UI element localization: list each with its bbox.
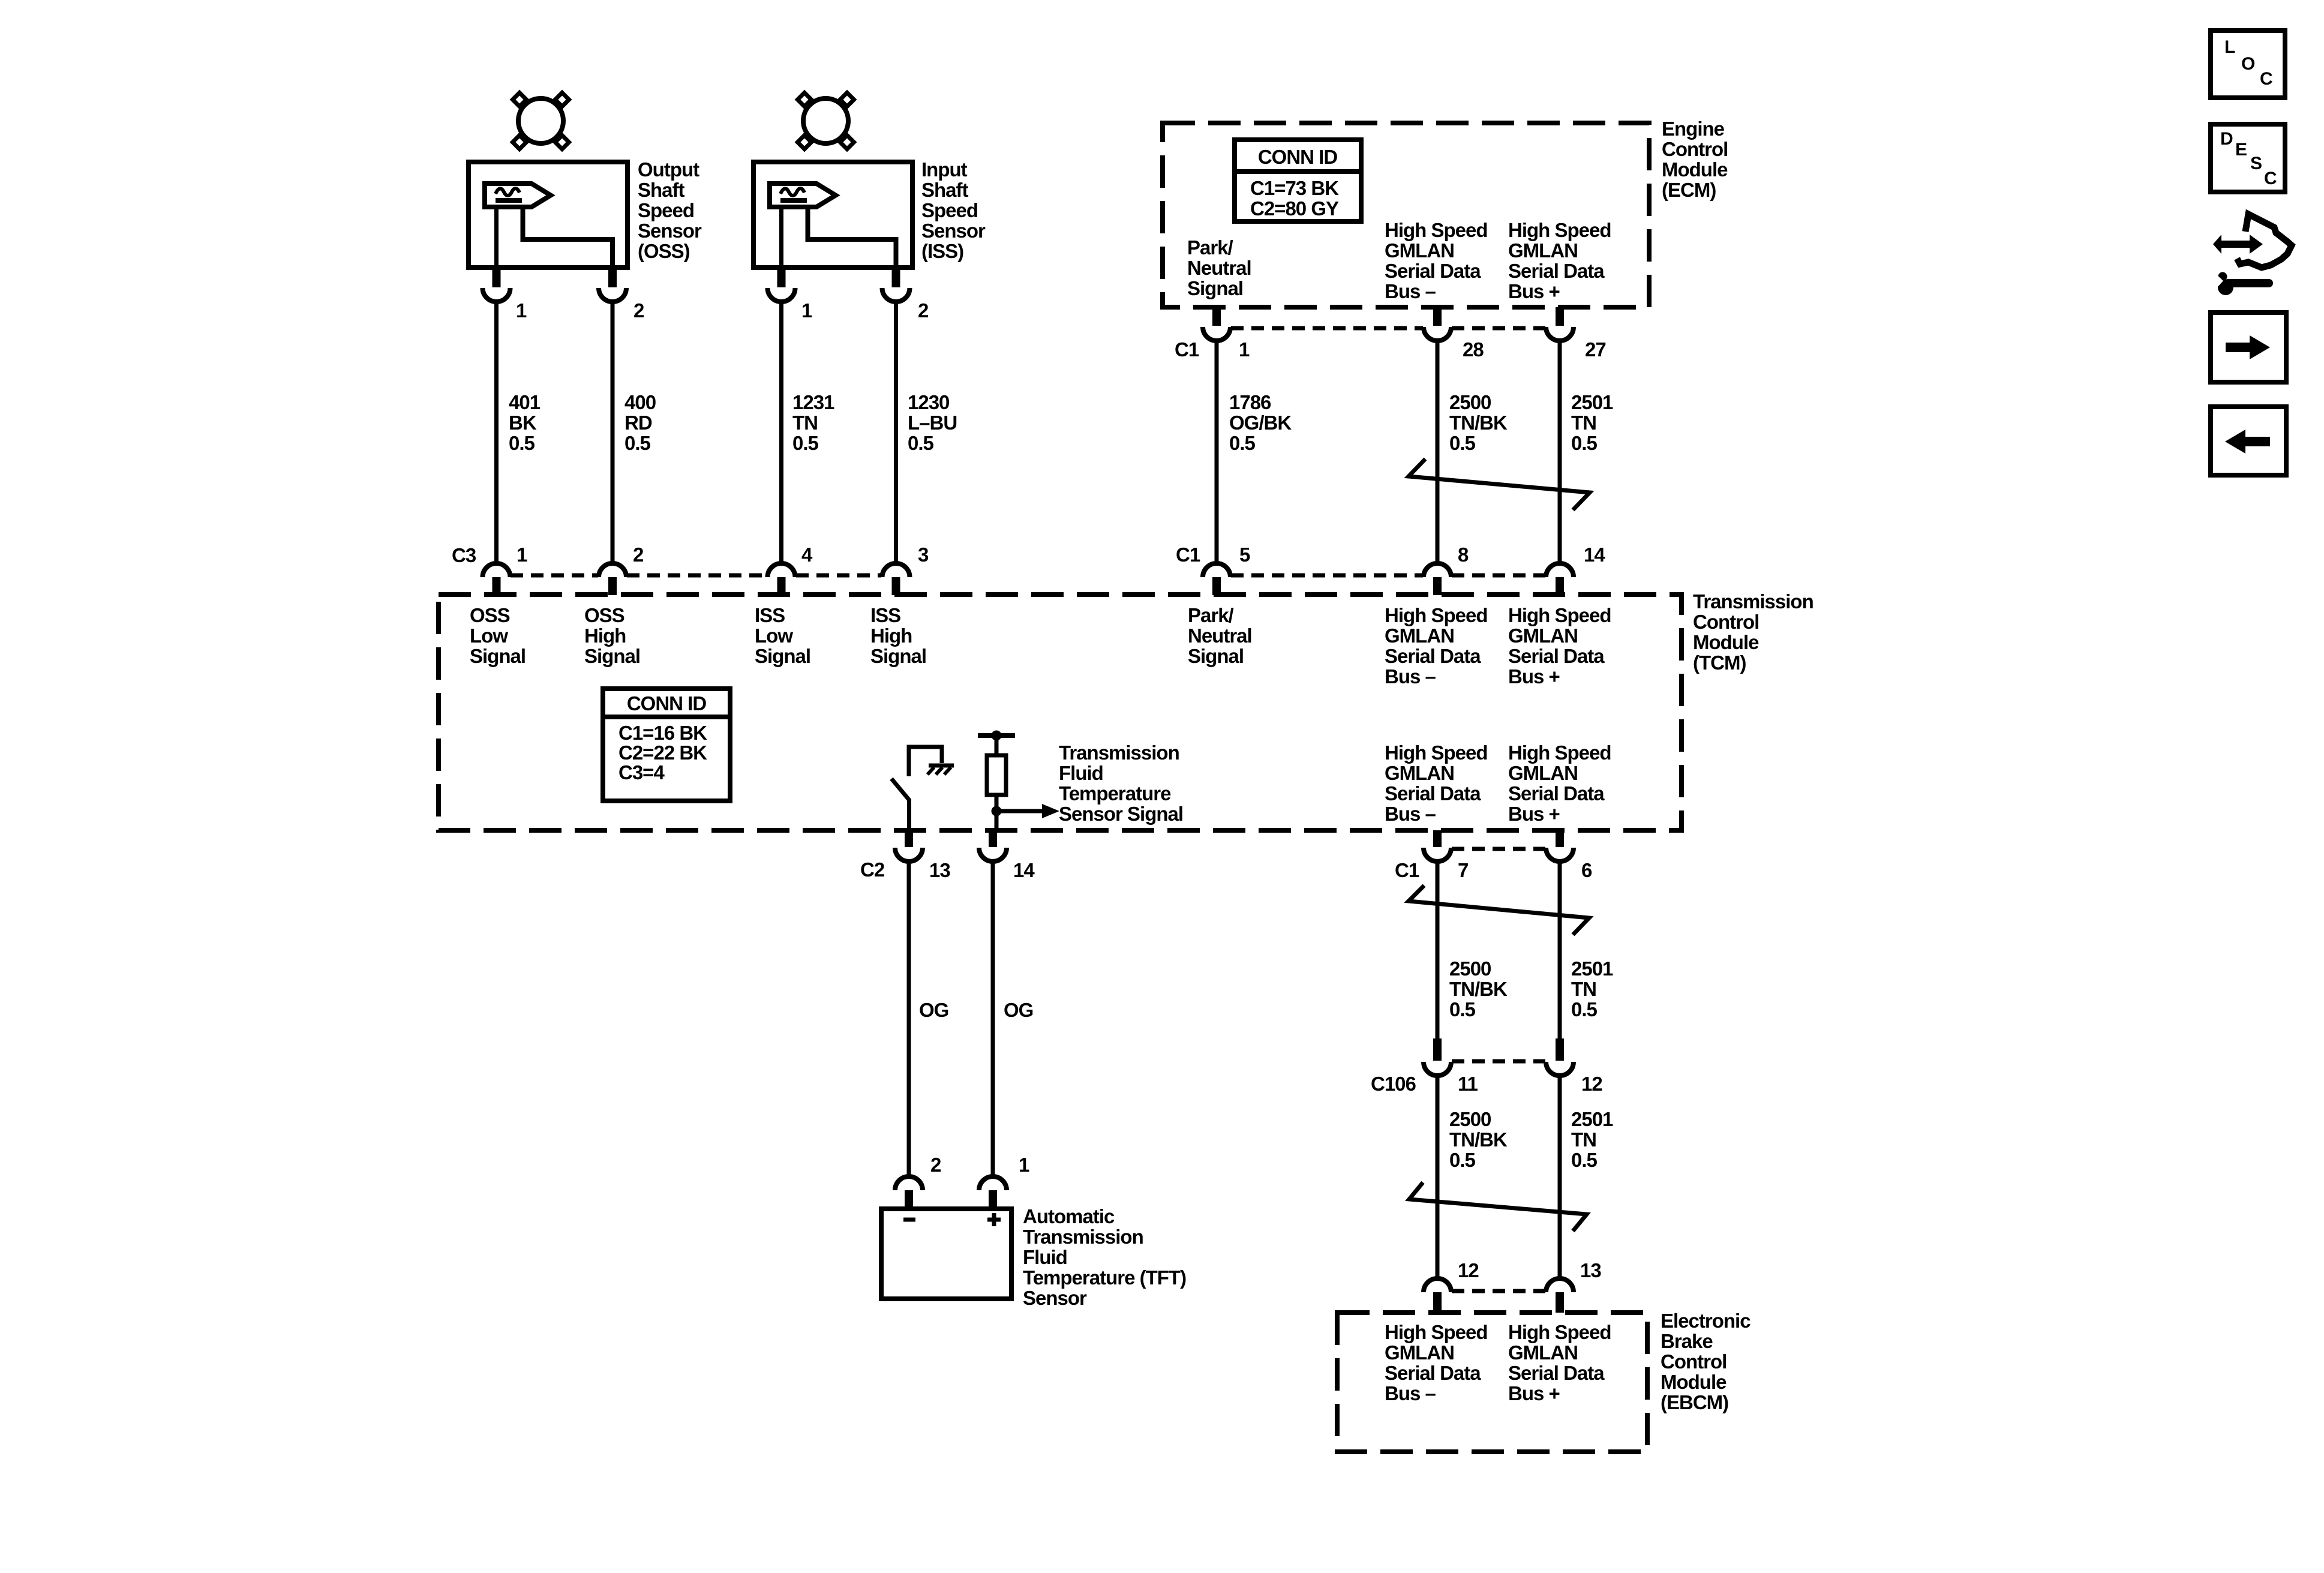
svg-text:Bus –: Bus –	[1385, 665, 1436, 688]
TCM OSS Low Signal label	[470, 604, 526, 667]
svg-text:C1: C1	[1175, 338, 1199, 361]
OSS internal lead pin2	[523, 207, 613, 268]
TFT sensor label	[1023, 1205, 1186, 1309]
svg-text:GMLAN: GMLAN	[1508, 625, 1578, 647]
TCM High Speed GMLAN Bus + label (top)	[1508, 604, 1611, 688]
svg-text:OG: OG	[919, 999, 948, 1021]
svg-text:C: C	[2260, 69, 2272, 89]
svg-text:Input: Input	[921, 158, 968, 181]
svg-text:Shaft: Shaft	[921, 179, 969, 201]
svg-text:Bus –: Bus –	[1385, 1382, 1436, 1404]
wire 2500 TN/BK (ECM-TCM)	[1436, 340, 1440, 564]
svg-text:Speed: Speed	[921, 199, 978, 221]
wire label 2501 TN 0.5 (mid)	[1571, 957, 1613, 1020]
svg-text:High: High	[870, 625, 912, 647]
ECM CONN ID table	[1235, 140, 1361, 221]
svg-text:Automatic: Automatic	[1023, 1205, 1115, 1227]
TCM pin 4 (C3) terminal	[768, 563, 795, 595]
svg-text:28: 28	[1463, 338, 1484, 361]
svg-text:2501: 2501	[1571, 957, 1613, 980]
svg-text:0.5: 0.5	[1229, 432, 1256, 454]
svg-text:0.5: 0.5	[1571, 1149, 1598, 1171]
svg-text:(ECM): (ECM)	[1662, 179, 1716, 201]
junction node (rail)	[992, 731, 1002, 741]
OSS gear/reluctor icon	[518, 98, 563, 143]
wire 401 BK	[494, 301, 499, 564]
svg-text:High Speed: High Speed	[1385, 219, 1488, 241]
svg-text:Bus +: Bus +	[1508, 803, 1560, 825]
svg-text:OG/BK: OG/BK	[1229, 412, 1292, 434]
svg-text:12: 12	[1458, 1259, 1479, 1281]
svg-text:OSS: OSS	[584, 604, 624, 626]
svg-text:High Speed: High Speed	[1508, 742, 1611, 764]
EBCM pin 13 terminal	[1546, 1278, 1574, 1313]
svg-text:TN: TN	[1571, 1128, 1596, 1151]
svg-text:Electronic: Electronic	[1661, 1310, 1750, 1332]
wire 2500 TN/BK (TCM-C106)	[1436, 860, 1440, 1040]
wire 1230 L-BU	[894, 301, 898, 564]
svg-text:E: E	[2235, 140, 2247, 160]
ISS label	[921, 158, 986, 262]
signal arrow	[996, 809, 1042, 813]
TCM label	[1693, 590, 1813, 674]
Transmission Fluid Temperature Sensor Signal label	[1059, 742, 1183, 825]
svg-text:C1=73 BK: C1=73 BK	[1250, 177, 1339, 199]
svg-text:0.5: 0.5	[1449, 432, 1476, 454]
wire label 1786 OG/BK 0.5	[1229, 391, 1292, 454]
svg-text:C2=22 BK: C2=22 BK	[618, 742, 707, 764]
ECM High Speed GMLAN Serial Data Bus - label	[1385, 219, 1488, 302]
svg-text:Sensor: Sensor	[638, 220, 702, 242]
svg-text:12: 12	[1581, 1073, 1602, 1095]
wire label 400 RD 0.5	[624, 391, 656, 454]
Electronic Brake Control Module (EBCM) dashed box	[1337, 1313, 1647, 1452]
svg-text:Serial Data: Serial Data	[1508, 645, 1605, 667]
svg-text:401: 401	[509, 391, 541, 413]
svg-text:Bus +: Bus +	[1508, 1382, 1560, 1404]
svg-text:4: 4	[801, 544, 813, 566]
svg-text:Signal: Signal	[470, 645, 526, 667]
svg-text:TN: TN	[1571, 412, 1596, 434]
svg-text:Park/: Park/	[1188, 604, 1234, 626]
svg-text:1: 1	[517, 544, 527, 566]
svg-text:0.5: 0.5	[1571, 998, 1598, 1020]
svg-text:C1=16 BK: C1=16 BK	[618, 722, 707, 744]
OSS label	[638, 158, 702, 262]
OSS hall-element symbol	[485, 184, 551, 207]
ECM pin 1 terminal	[1203, 307, 1230, 341]
svg-text:Sensor Signal: Sensor Signal	[1059, 803, 1183, 825]
forward arrow icon box	[2211, 313, 2286, 382]
svg-text:Low: Low	[755, 625, 793, 647]
TCM High Speed GMLAN Bus - label (bottom)	[1385, 742, 1488, 825]
EBCM connector dashed line	[1452, 1289, 1545, 1293]
svg-text:11: 11	[1458, 1073, 1478, 1095]
svg-text:Transmission: Transmission	[1693, 590, 1813, 613]
svg-text:(OSS): (OSS)	[638, 240, 690, 262]
svg-text:High Speed: High Speed	[1385, 604, 1488, 626]
TCM pin 2 (C3) terminal	[599, 563, 626, 595]
svg-text:2: 2	[633, 544, 644, 566]
svg-text:2: 2	[918, 299, 929, 322]
svg-text:Transmission: Transmission	[1023, 1226, 1143, 1248]
ISS pin 2 terminal	[882, 268, 910, 302]
svg-text:TN: TN	[792, 412, 818, 434]
svg-text:Serial Data: Serial Data	[1385, 260, 1481, 282]
svg-text:Control: Control	[1661, 1350, 1727, 1373]
svg-text:Signal: Signal	[1187, 277, 1243, 299]
svg-text:GMLAN: GMLAN	[1385, 625, 1454, 647]
svg-text:Serial Data: Serial Data	[1508, 782, 1605, 804]
svg-text:C3: C3	[452, 544, 476, 566]
TCM connector C1 (top) dashed line	[1231, 574, 1423, 578]
OSS pin 2 terminal	[599, 268, 626, 302]
TCM pin 5 (C1) terminal	[1203, 563, 1230, 595]
svg-text:Fluid: Fluid	[1059, 762, 1103, 784]
svg-text:1231: 1231	[792, 391, 834, 413]
TCM pin 14 (C2) terminal	[979, 830, 1007, 861]
svg-text:0.5: 0.5	[624, 432, 651, 454]
svg-text:Temperature (TFT): Temperature (TFT)	[1023, 1266, 1186, 1289]
wire label 2500 TN/BK 0.5 (top)	[1449, 391, 1508, 454]
svg-text:1: 1	[1019, 1154, 1029, 1176]
wire 400 RD	[611, 301, 615, 564]
svg-text:C3=4: C3=4	[618, 761, 665, 784]
DESC icon box	[2211, 124, 2285, 192]
twisted pair symbol (TCM-C106)	[1409, 885, 1589, 935]
TCM ISS High Signal label	[870, 604, 926, 667]
EBCM High Speed GMLAN Bus - label	[1385, 1321, 1488, 1404]
Input Shaft Speed Sensor (ISS)	[753, 93, 912, 268]
wire 1231 TN	[779, 301, 783, 564]
TCM connector C3 dashed line	[511, 574, 598, 578]
svg-text:High Speed: High Speed	[1508, 219, 1611, 241]
svg-text:Neutral: Neutral	[1188, 625, 1252, 647]
twisted pair symbol (ECM-TCM)	[1409, 459, 1590, 510]
svg-text:High Speed: High Speed	[1385, 1321, 1488, 1343]
ECM label	[1662, 118, 1728, 201]
wire resistor to pin 14	[995, 795, 999, 830]
svg-text:Park/: Park/	[1187, 236, 1233, 259]
svg-text:High Speed: High Speed	[1508, 604, 1611, 626]
TCM CONN ID table	[603, 689, 730, 801]
svg-text:D: D	[2220, 129, 2233, 149]
svg-text:1230: 1230	[908, 391, 949, 413]
ISS gear/reluctor icon	[803, 98, 848, 143]
svg-text:OG: OG	[1004, 999, 1033, 1021]
svg-text:0.5: 0.5	[509, 432, 535, 454]
svg-text:400: 400	[624, 391, 656, 413]
TCM High Speed GMLAN Bus + label (bottom)	[1508, 742, 1611, 825]
wire 2500 TN/BK (C106-EBCM)	[1436, 1074, 1440, 1278]
back arrow icon box	[2211, 407, 2286, 475]
svg-text:2501: 2501	[1571, 1108, 1613, 1130]
svg-text:Transmission: Transmission	[1059, 742, 1179, 764]
svg-text:Control: Control	[1662, 138, 1728, 160]
wire 2501 TN (TCM-C106)	[1558, 860, 1562, 1040]
svg-text:C106: C106	[1371, 1073, 1416, 1095]
svg-text:13: 13	[929, 859, 950, 881]
svg-text:C2=80 GY: C2=80 GY	[1250, 197, 1339, 220]
svg-text:Neutral: Neutral	[1187, 257, 1251, 279]
svg-text:2500: 2500	[1449, 1108, 1491, 1130]
TCM pin 7 (C1) terminal	[1424, 830, 1451, 861]
ground symbol	[927, 766, 954, 775]
EBCM High Speed GMLAN Bus + label	[1508, 1321, 1611, 1404]
junction node (signal tap)	[992, 806, 1002, 816]
svg-text:C1: C1	[1395, 859, 1419, 881]
ECM High Speed GMLAN Serial Data Bus + label	[1508, 219, 1611, 302]
svg-text:TN/BK: TN/BK	[1449, 978, 1508, 1000]
svg-text:0.5: 0.5	[1449, 998, 1476, 1020]
wire rail to resistor	[995, 736, 999, 755]
svg-text:L: L	[2224, 37, 2235, 57]
svg-text:(TCM): (TCM)	[1693, 652, 1746, 674]
svg-text:Engine: Engine	[1662, 118, 1725, 140]
svg-text:High Speed: High Speed	[1508, 1321, 1611, 1343]
svg-text:Bus +: Bus +	[1508, 280, 1560, 302]
TCM connector C1 (bottom) dashed line	[1452, 847, 1545, 851]
wire label 2501 TN 0.5 (low)	[1571, 1108, 1613, 1171]
svg-text:Sensor: Sensor	[1023, 1287, 1087, 1309]
svg-text:Serial Data: Serial Data	[1508, 260, 1605, 282]
svg-text:S: S	[2250, 154, 2262, 173]
diagnostic arrow/wrench icon	[2211, 214, 2292, 295]
svg-text:0.5: 0.5	[1571, 432, 1598, 454]
svg-text:O: O	[2241, 54, 2255, 74]
svg-text:2501: 2501	[1571, 391, 1613, 413]
wire label 1231 TN 0.5	[792, 391, 834, 454]
svg-text:0.5: 0.5	[908, 432, 934, 454]
ECM Park/Neutral Signal label	[1187, 236, 1251, 299]
C106 pin 11 terminal	[1424, 1038, 1451, 1076]
wire label 2501 TN 0.5 (top)	[1571, 391, 1613, 454]
svg-text:Signal: Signal	[755, 645, 810, 667]
svg-text:Output: Output	[638, 158, 699, 181]
svg-text:ISS: ISS	[870, 604, 900, 626]
svg-text:Serial Data: Serial Data	[1508, 1362, 1605, 1384]
svg-text:Fluid: Fluid	[1023, 1246, 1067, 1268]
svg-text:High Speed: High Speed	[1385, 742, 1488, 764]
LOC icon box	[2211, 31, 2285, 98]
TCM pin 8 (C1) terminal	[1424, 563, 1451, 595]
svg-text:2500: 2500	[1449, 391, 1491, 413]
TFT sensor pin 2 terminal	[895, 1176, 923, 1209]
svg-text:2: 2	[633, 299, 644, 322]
Engine Control Module (ECM) dashed box	[1163, 123, 1649, 307]
wire 2501 TN (C106-EBCM)	[1558, 1074, 1562, 1278]
svg-text:Signal: Signal	[870, 645, 926, 667]
svg-text:0.5: 0.5	[1449, 1149, 1476, 1171]
ISS internal lead pin2	[808, 207, 896, 268]
wire label 1230 L-BU 0.5	[908, 391, 957, 454]
svg-text:Bus –: Bus –	[1385, 803, 1436, 825]
svg-text:Speed: Speed	[638, 199, 694, 221]
svg-text:Sensor: Sensor	[921, 220, 986, 242]
TCM OSS High Signal label	[584, 604, 640, 667]
svg-text:C1: C1	[1176, 544, 1200, 566]
ECM connector C1 dashed line	[1231, 326, 1423, 331]
EBCM label	[1661, 1310, 1750, 1413]
OSS body	[469, 162, 627, 268]
twisted pair symbol (C106-EBCM)	[1409, 1182, 1587, 1231]
svg-text:(ISS): (ISS)	[921, 240, 963, 262]
TCM pin 3 (C3) terminal	[882, 563, 910, 595]
svg-text:1: 1	[1239, 338, 1250, 361]
ECM pin 27 terminal	[1546, 307, 1574, 341]
wire 2501 TN (ECM-TCM)	[1558, 340, 1562, 564]
svg-text:1: 1	[516, 299, 527, 322]
svg-text:27: 27	[1585, 338, 1606, 361]
svg-text:GMLAN: GMLAN	[1385, 762, 1454, 784]
svg-text:Brake: Brake	[1661, 1330, 1713, 1352]
wire OG (pin14)	[991, 860, 995, 1176]
Automatic Transmission Fluid Temperature (TFT) Sensor box	[881, 1209, 1011, 1299]
ECM pin 28 terminal	[1424, 307, 1451, 341]
svg-text:13: 13	[1580, 1259, 1601, 1281]
svg-text:Serial Data: Serial Data	[1385, 1362, 1481, 1384]
svg-text:L–BU: L–BU	[908, 412, 957, 434]
TFT sensor pin 1 terminal	[979, 1176, 1007, 1209]
svg-text:CONN ID: CONN ID	[627, 692, 707, 715]
ISS pin 1 terminal	[768, 268, 795, 302]
park/neutral switch blade	[891, 779, 909, 800]
OSS internal lead pin1	[494, 207, 499, 268]
svg-text:Module: Module	[1662, 158, 1728, 181]
svg-text:14: 14	[1013, 859, 1035, 881]
svg-text:High: High	[584, 625, 626, 647]
svg-text:Signal: Signal	[584, 645, 640, 667]
ISS internal lead pin1	[779, 207, 783, 268]
svg-text:Signal: Signal	[1188, 645, 1244, 667]
svg-text:ISS: ISS	[755, 604, 785, 626]
svg-text:1: 1	[801, 299, 812, 322]
svg-text:7: 7	[1458, 859, 1468, 881]
TCM pin 13 (C2) terminal	[895, 830, 923, 861]
svg-text:Serial Data: Serial Data	[1385, 782, 1481, 804]
wire label 2500 TN/BK 0.5 (low)	[1449, 1108, 1508, 1171]
TFT plus sign	[987, 1213, 1001, 1226]
svg-text:GMLAN: GMLAN	[1508, 762, 1578, 784]
svg-text:BK: BK	[509, 412, 537, 434]
C106 pin 12 terminal	[1546, 1038, 1574, 1076]
wire label 2500 TN/BK 0.5 (mid)	[1449, 957, 1508, 1020]
svg-text:Module: Module	[1693, 631, 1759, 653]
TCM ISS Low Signal label	[755, 604, 810, 667]
svg-text:(EBCM): (EBCM)	[1661, 1391, 1728, 1413]
TCM Park/Neutral Signal label	[1188, 604, 1252, 667]
wire 1786 OG/BK	[1215, 340, 1219, 564]
ISS body	[753, 162, 912, 268]
wire OG (pin13)	[907, 860, 911, 1176]
svg-text:0.5: 0.5	[792, 432, 819, 454]
TCM High Speed GMLAN Bus - label (top)	[1385, 604, 1488, 688]
svg-text:Low: Low	[470, 625, 508, 647]
svg-text:GMLAN: GMLAN	[1385, 239, 1454, 262]
park/neutral switch contact and ground lead	[909, 747, 942, 776]
svg-text:Bus +: Bus +	[1508, 665, 1560, 688]
svg-text:Control: Control	[1693, 611, 1759, 633]
connector C106 dashed line	[1452, 1059, 1545, 1064]
svg-text:5: 5	[1239, 544, 1250, 566]
svg-text:Bus –: Bus –	[1385, 280, 1436, 302]
ISS hall-element symbol	[770, 184, 836, 207]
svg-text:GMLAN: GMLAN	[1508, 1341, 1578, 1364]
svg-text:GMLAN: GMLAN	[1385, 1341, 1454, 1364]
wire label 401 BK 0.5	[509, 391, 541, 454]
svg-text:TN/BK: TN/BK	[1449, 1128, 1508, 1151]
svg-text:C2: C2	[860, 858, 885, 881]
svg-text:6: 6	[1581, 859, 1592, 881]
OSS pin 1 terminal	[483, 268, 511, 302]
svg-text:1786: 1786	[1229, 391, 1271, 413]
EBCM pin 12 terminal	[1424, 1278, 1451, 1313]
svg-text:TN/BK: TN/BK	[1449, 412, 1508, 434]
svg-text:8: 8	[1458, 544, 1469, 566]
svg-text:3: 3	[918, 544, 929, 566]
TCM pin 1 (C3) terminal	[483, 563, 511, 595]
Transmission Control Module (TCM) dashed box	[439, 595, 1682, 830]
TCM pin 14 (C1) terminal	[1546, 563, 1574, 595]
svg-text:CONN ID: CONN ID	[1258, 146, 1338, 168]
svg-text:C: C	[2264, 169, 2277, 188]
svg-text:GMLAN: GMLAN	[1508, 239, 1578, 262]
svg-text:2500: 2500	[1449, 957, 1491, 980]
svg-text:OSS: OSS	[470, 604, 510, 626]
svg-text:Serial Data: Serial Data	[1385, 645, 1481, 667]
svg-text:14: 14	[1584, 544, 1605, 566]
Output Shaft Speed Sensor (OSS)	[469, 93, 627, 268]
svg-text:Module: Module	[1661, 1371, 1727, 1393]
TFT sensor signal rail	[978, 733, 1015, 738]
svg-text:RD: RD	[624, 412, 652, 434]
svg-text:TN: TN	[1571, 978, 1596, 1000]
svg-text:Shaft: Shaft	[638, 179, 685, 201]
TCM pin 6 (C1) terminal	[1546, 830, 1574, 861]
pull-up resistor	[987, 755, 1006, 795]
TFT minus sign	[903, 1218, 915, 1222]
svg-text:Temperature: Temperature	[1059, 782, 1171, 804]
svg-text:2: 2	[930, 1154, 941, 1176]
